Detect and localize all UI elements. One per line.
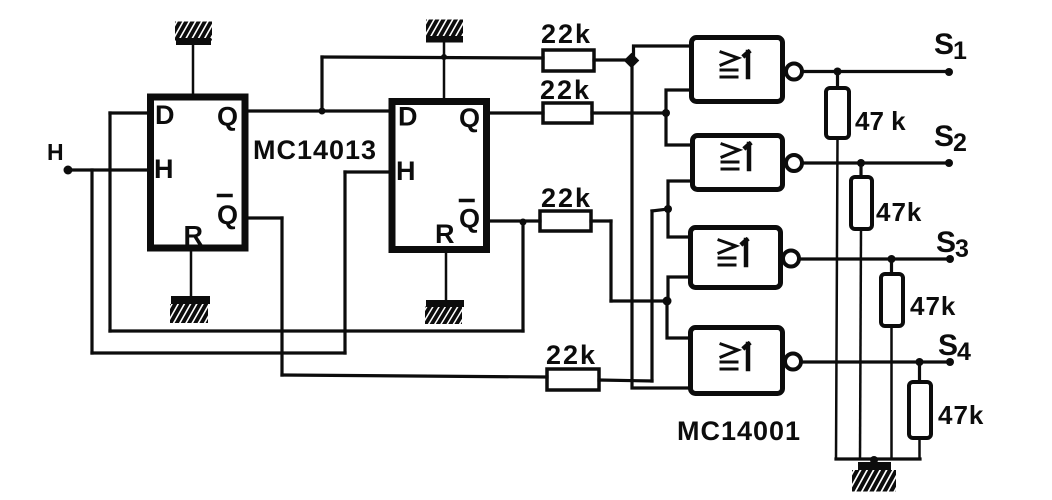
- wire U2d output to S4: [801, 360, 950, 363]
- wire Q1bar stub: [248, 216, 282, 219]
- wire R8 top: [918, 362, 921, 382]
- ground above U1a: hatch: [162, 20, 225, 43]
- wire node A to NOR1 input B: [666, 90, 691, 113]
- ground above U1b: bar: [426, 36, 463, 43]
- wire R7 top: [890, 259, 893, 274]
- wire bottom H run to right: [92, 351, 345, 354]
- svg-text:22k: 22k: [546, 340, 597, 370]
- svg-text:47k: 47k: [876, 197, 922, 227]
- label U2a >=1: [721, 52, 749, 77]
- NOR gate U2c box: [691, 228, 781, 288]
- resistor R5 47k body: [826, 88, 849, 138]
- svg-text:Q: Q: [459, 103, 480, 133]
- label U2c >=1: [719, 240, 747, 265]
- ground below U1b: bar: [426, 300, 464, 307]
- ground above U1b: hatch: [413, 18, 476, 41]
- node top wire crossing: [441, 54, 447, 60]
- wire R3 right: [591, 219, 611, 222]
- wire U2b output to S2: [802, 161, 949, 164]
- ground above U1a: bar: [176, 38, 211, 45]
- D flip-flop U1b box: [392, 102, 487, 250]
- svg-text:3: 3: [955, 235, 969, 263]
- wire H node down: [90, 170, 93, 353]
- wire top run to 22k R1: [322, 57, 543, 58]
- NOR gate U2b box: [693, 136, 783, 190]
- ground above U1a: stem: [192, 45, 195, 94]
- ground below U1a: hatch: [157, 302, 220, 325]
- svg-text:Q: Q: [217, 200, 238, 230]
- wire Q2bar to 22k R3: [490, 219, 540, 222]
- node ground rail junction: [870, 456, 878, 464]
- node S3 rail junction: [888, 255, 896, 263]
- wire U2c output to S3: [799, 257, 950, 260]
- svg-text:S: S: [938, 329, 958, 362]
- wire Q1 to D2: [248, 109, 388, 112]
- wire H input to FF1 H pin: [68, 168, 147, 171]
- svg-text:4: 4: [957, 338, 971, 366]
- wire V2 top link to node B: [652, 209, 668, 211]
- wire D1 feedback vertical: [108, 113, 111, 331]
- wire Q1bar run to 22k R4: [282, 375, 547, 377]
- svg-text:D: D: [398, 102, 418, 132]
- node B junction: [664, 205, 672, 213]
- resistor R1 22k body: [543, 50, 594, 71]
- svg-text:22k: 22k: [540, 75, 591, 105]
- resistor R3 22k body: [540, 211, 591, 231]
- terminal S4 dot: [946, 358, 954, 366]
- wire R1 to diamond node: [594, 58, 628, 61]
- wire R7 rail down: [890, 326, 893, 459]
- ground below U1b: hatch: [412, 305, 475, 327]
- resistor R2 22k body: [543, 103, 592, 123]
- resistor R4 22k body: [547, 369, 599, 390]
- svg-text:H: H: [154, 154, 174, 184]
- resistor R6 47k body: [851, 177, 872, 229]
- bubble U2c: [783, 251, 799, 267]
- NOR gate U2a box: [692, 38, 783, 102]
- label U2b >=1: [722, 144, 750, 169]
- terminal S1 dot: [945, 68, 953, 76]
- svg-text:22k: 22k: [541, 183, 592, 213]
- ground below U1a: stem: [190, 251, 193, 297]
- node S2 rail junction: [857, 159, 865, 167]
- svg-text:Q: Q: [217, 102, 238, 132]
- node diamond junction: [624, 53, 640, 69]
- wire R2 to node A: [592, 111, 666, 114]
- wire U2a output to S1: [802, 70, 949, 73]
- wire D1 feedback up to Q2bar: [521, 222, 524, 331]
- wire diamond to NOR1 input A: [634, 46, 692, 57]
- resistor R7 47k body: [881, 274, 903, 326]
- svg-text:S: S: [936, 226, 956, 259]
- wire D1 feedback horizontal: [110, 329, 523, 332]
- bubble U2d: [785, 354, 801, 370]
- wire node C to NOR3 input B: [668, 277, 691, 301]
- wire Q1bar down: [280, 218, 283, 375]
- ground bottom: bar: [858, 462, 891, 470]
- terminal S3 dot: [946, 255, 954, 263]
- wire node B to NOR2 input B: [668, 181, 691, 209]
- svg-text:S: S: [934, 28, 954, 61]
- input H terminal dot: [64, 166, 73, 175]
- wire into FF2 H pin: [345, 170, 388, 173]
- ground above U1b: stem: [443, 42, 446, 98]
- svg-text:47 k: 47 k: [855, 106, 906, 136]
- NOR gate U2d box: [691, 328, 783, 394]
- svg-text:22k: 22k: [541, 19, 592, 49]
- wire bus V1 down from diamond: [632, 64, 691, 388]
- svg-text:Q: Q: [459, 204, 480, 234]
- node Q1 branch junction: [319, 108, 326, 115]
- wire R5 top: [836, 72, 839, 89]
- wire up to FF2 H level: [343, 172, 346, 353]
- label U2d >=1: [721, 344, 749, 369]
- resistor R8 47k body: [909, 382, 931, 438]
- svg-text:R: R: [435, 219, 455, 249]
- svg-text:H: H: [47, 139, 64, 165]
- svg-text:MC14001: MC14001: [677, 416, 801, 446]
- svg-text:D: D: [155, 100, 175, 130]
- svg-text:47k: 47k: [910, 291, 956, 321]
- node C junction: [663, 297, 672, 306]
- svg-text:MC14013: MC14013: [253, 135, 377, 165]
- svg-text:1: 1: [953, 37, 967, 65]
- wire R6 rail down: [860, 229, 861, 459]
- wire R8 rail down: [918, 438, 921, 459]
- wire bottom ground rail: [836, 457, 920, 460]
- overbar Qbar (U1a): [219, 194, 232, 198]
- wire node C to NOR4 input A: [667, 301, 691, 338]
- wire R6 top: [859, 163, 862, 177]
- wire R4 to bus V2: [599, 380, 652, 381]
- wire Q2 to 22k R2: [490, 111, 543, 114]
- node Q2bar junction: [520, 219, 527, 226]
- svg-text:S: S: [934, 120, 954, 153]
- svg-text:47k: 47k: [938, 400, 984, 430]
- ground below U1b: stem: [445, 253, 448, 301]
- wire R3 run to node C: [611, 299, 667, 302]
- wire node A to NOR2 input A: [666, 113, 691, 145]
- svg-text:H: H: [396, 156, 416, 186]
- wire Q1 branch up: [320, 57, 323, 111]
- wire R3 down: [609, 221, 612, 301]
- ground below U1a: bar: [171, 296, 210, 304]
- terminal S2 dot: [945, 159, 953, 167]
- svg-text:R: R: [184, 221, 204, 251]
- svg-text:2: 2: [953, 129, 967, 157]
- node S1 rail junction: [834, 68, 842, 76]
- wire node B to NOR3 input A: [668, 209, 691, 237]
- node S4 rail junction: [916, 358, 924, 366]
- D flip-flop U1a box: [151, 97, 246, 248]
- wire FF1 D pin stub: [110, 111, 147, 114]
- wire R5 rail down: [836, 138, 838, 459]
- overbar Qbar (U1b): [461, 199, 474, 203]
- bubble U2a: [786, 64, 802, 80]
- node A junction: [662, 109, 670, 117]
- wire bus V2 up: [650, 211, 653, 381]
- bubble U2b: [786, 155, 802, 171]
- ground bottom: hatch: [838, 468, 911, 494]
